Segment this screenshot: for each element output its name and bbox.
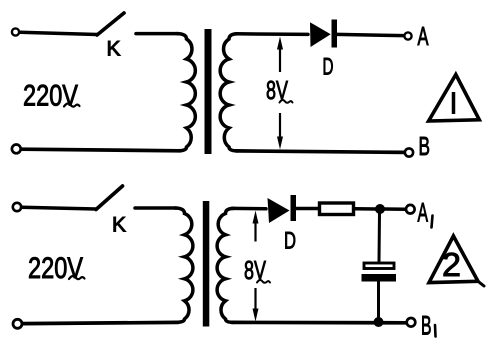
wire (secondary bottom to terminal B1, circuit 2) xyxy=(232,321,406,325)
terminal (bottom-left input, circuit 2) xyxy=(13,319,22,328)
wire (secondary bottom to terminal B, circuit 1) xyxy=(236,151,404,153)
capacitor C bottom plate (solid) xyxy=(362,274,397,282)
wire (primary top, terminal to switch pivot) xyxy=(20,32,97,34)
wire (capacitor down to node B1) xyxy=(377,282,380,322)
8V dimension arrow down (circuit 2) xyxy=(254,288,256,310)
terminal B1 xyxy=(407,318,416,327)
AC squiggle under V (circuit 2, 220V) xyxy=(69,276,85,279)
wire (primary top, terminal to switch pivot, circuit 2) xyxy=(22,207,97,209)
8V dimension arrow down (circuit 1) xyxy=(279,113,281,137)
wire (node to terminal A1) xyxy=(385,207,405,211)
transformer T2 secondary winding xyxy=(217,208,234,322)
wire (primary bottom, circuit 1) xyxy=(21,149,180,151)
wire (diode to terminal A) xyxy=(337,34,404,35)
8V dimension arrow up (circuit 1) xyxy=(279,49,281,72)
terminal (top-left input, circuit 2) xyxy=(13,203,21,211)
callout triangle 1 xyxy=(429,75,480,122)
capacitor C top plate (hollow) xyxy=(364,263,394,269)
svg-text:D: D xyxy=(284,228,296,255)
AC squiggle under V (circuit 2, 8V) xyxy=(257,280,270,283)
wire (diode to resistor, circuit 2) xyxy=(296,207,319,211)
wire (resistor to node A1) xyxy=(355,207,376,211)
triangle 2 base overshoot stroke xyxy=(478,281,484,286)
svg-text:8V: 8V xyxy=(244,255,266,285)
switch K blade (open, circuit 2) xyxy=(96,186,123,210)
svg-text:K: K xyxy=(107,38,121,61)
svg-text:220V: 220V xyxy=(28,252,83,285)
terminal (bottom-left input, circuit 1) xyxy=(12,145,21,154)
transformer T1 primary winding xyxy=(177,34,195,151)
svg-text:B: B xyxy=(421,311,432,341)
transformer T2 primary winding xyxy=(175,208,193,322)
svg-text:A: A xyxy=(418,21,429,51)
AC squiggle under V (circuit 1, 8V) xyxy=(280,100,293,103)
transformer T1 core xyxy=(205,29,212,154)
switch K blade (open, circuit 1) xyxy=(97,13,124,35)
8V dimension arrow up (circuit 2) xyxy=(254,223,256,242)
svg-text:B: B xyxy=(419,131,431,161)
callout triangle 2 xyxy=(429,236,478,283)
svg-text:220V: 220V xyxy=(23,80,78,113)
node junction dot (bottom, circuit 2) xyxy=(374,317,384,327)
node junction dot (top, circuit 2) xyxy=(375,204,385,214)
AC squiggle under V (circuit 1, 220V) xyxy=(64,104,80,107)
svg-text:2: 2 xyxy=(442,246,461,283)
digit 1 inside triangle xyxy=(452,92,456,114)
resistor R (circuit 2) xyxy=(320,203,354,215)
wire (switch contact to transformer primary, circuit 2) xyxy=(135,206,176,210)
diode D (circuit 1) xyxy=(310,22,331,47)
terminal (top-left input, circuit 1) xyxy=(12,28,19,35)
transformer T2 core xyxy=(203,201,210,327)
wire (primary bottom, circuit 2) xyxy=(22,322,178,323)
wire (switch contact to transformer primary, circuit 1) xyxy=(136,32,178,36)
terminal A1 xyxy=(406,205,415,214)
svg-text:A: A xyxy=(418,198,429,228)
wire (secondary top to diode, circuit 2) xyxy=(232,207,266,211)
transformer T1 secondary winding xyxy=(220,34,238,151)
svg-text:K: K xyxy=(112,214,126,237)
terminal B xyxy=(405,148,413,156)
wire (secondary top to diode, circuit 1) xyxy=(236,32,308,36)
svg-text:D: D xyxy=(323,54,334,81)
terminal A xyxy=(404,32,411,39)
diode D (circuit 2) xyxy=(268,198,290,223)
wire (node A1 down to capacitor) xyxy=(378,213,382,261)
